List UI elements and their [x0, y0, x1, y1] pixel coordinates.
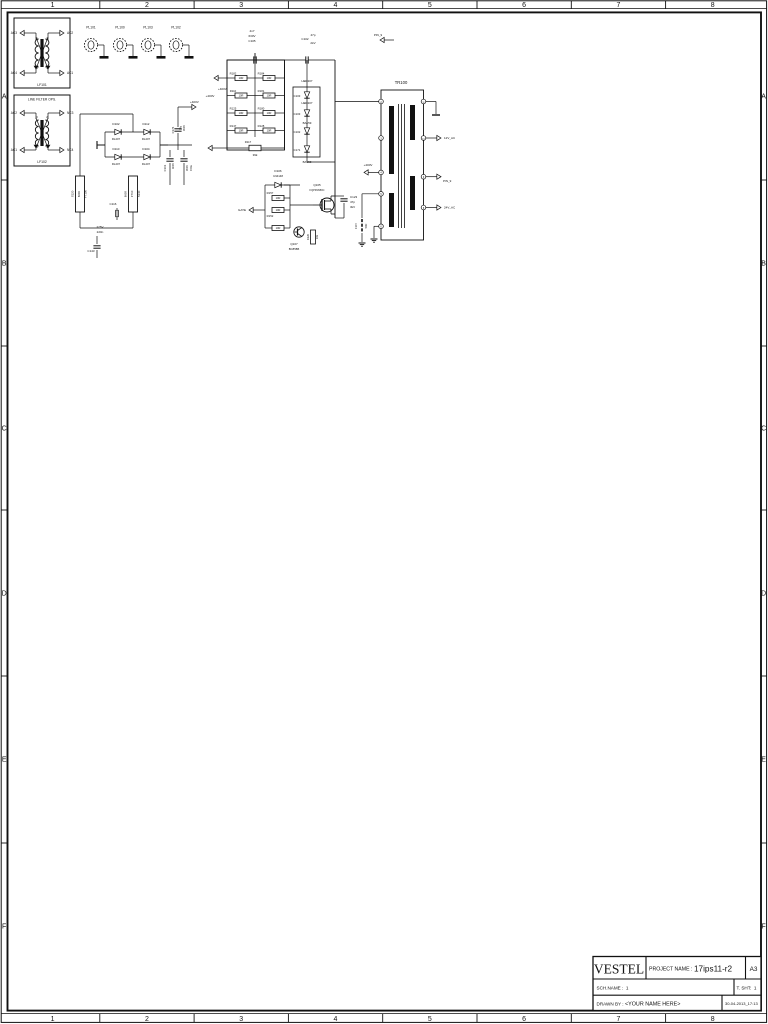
svg-text:10R: 10R — [267, 111, 272, 115]
ruler tick left — [1, 179, 7, 181]
svg-text:AC4: AC4 — [11, 71, 17, 75]
ruler tick top — [99, 1, 101, 9]
svg-text:39k: 39k — [253, 153, 258, 157]
title block frame — [593, 957, 761, 1011]
svg-text:+400V: +400V — [190, 100, 199, 104]
svg-text:AC1: AC1 — [11, 148, 17, 152]
svg-text:E: E — [2, 757, 7, 764]
wire bridge top — [105, 131, 160, 133]
resistor R182 — [235, 76, 247, 81]
svg-text:RL207: RL207 — [142, 162, 151, 166]
svg-text:FT100: FT100 — [84, 190, 88, 199]
transformer TR100 pin 10 — [421, 136, 426, 141]
wire top to caps — [132, 125, 134, 132]
svg-text:LINE FILTER OPS.: LINE FILTER OPS. — [28, 98, 56, 102]
wire snubber verticals — [254, 60, 256, 137]
wire AC vertical trunk — [79, 114, 81, 176]
resistor R156 10R — [272, 226, 284, 231]
transformer TR100 primary winding lower — [389, 193, 394, 227]
resistor R125 — [235, 111, 247, 116]
resistor R184 — [263, 76, 275, 81]
svg-text:450V: 450V — [182, 125, 186, 131]
svg-text:F107: F107 — [354, 222, 358, 228]
svg-text:50R: 50R — [364, 223, 368, 228]
svg-text:10R: 10R — [239, 129, 244, 133]
node PIN_9 top label — [380, 37, 384, 42]
wire filter mid — [97, 144, 105, 146]
capacitor C143 — [96, 236, 98, 244]
svg-text:AC3: AC3 — [11, 31, 17, 35]
svg-text:F: F — [2, 924, 6, 931]
diode D112 RL207 — [144, 129, 150, 134]
svg-text:C123: C123 — [350, 195, 358, 199]
svg-text:BC858B: BC858B — [289, 247, 300, 251]
ruler tick bottom — [476, 1014, 478, 1023]
wire snubber top rail — [285, 59, 306, 61]
resistor R152 10R — [272, 208, 284, 213]
svg-text:LF102: LF102 — [37, 160, 47, 164]
svg-text:5: 5 — [428, 1016, 432, 1023]
node AC2 — [60, 30, 64, 35]
wire cap rail — [160, 144, 192, 146]
svg-text:PL102: PL102 — [171, 26, 181, 30]
ruler tick top — [287, 1, 289, 9]
svg-text:450V: 450V — [185, 165, 189, 171]
svg-text:R128: R128 — [258, 124, 265, 128]
svg-text:4: 4 — [334, 1016, 338, 1023]
svg-text:275V: 275V — [96, 225, 103, 229]
svg-text:10R: 10R — [239, 76, 244, 80]
svg-text:10R: 10R — [276, 226, 281, 230]
wire snubber row — [227, 95, 235, 97]
diode D102 RL207 — [115, 129, 121, 134]
svg-text:SCH.NAME : 1: SCH.NAME : 1 — [597, 986, 629, 991]
svg-text:1: 1 — [51, 1016, 55, 1023]
svg-text:AC2: AC2 — [67, 31, 73, 35]
wire drain trunk — [334, 60, 336, 218]
node AC4 — [20, 70, 24, 75]
svg-text:B: B — [761, 261, 766, 268]
resistor R181 — [263, 93, 275, 98]
svg-text:RL207: RL207 — [112, 162, 121, 166]
svg-text:R182: R182 — [230, 72, 237, 76]
svg-text:R181: R181 — [258, 89, 265, 93]
svg-text:8: 8 — [711, 1016, 715, 1023]
svg-text:Q107: Q107 — [290, 242, 298, 246]
svg-text:C103: C103 — [294, 112, 301, 116]
svg-text:10R: 10R — [276, 196, 281, 200]
ruler tick bottom — [99, 1014, 101, 1023]
ruler tick top — [665, 1, 667, 9]
node +400V snubber — [218, 77, 227, 79]
ruler tick left — [1, 345, 7, 347]
svg-text:TR100: TR100 — [395, 80, 408, 85]
transformer TR100 pin 5 — [379, 192, 384, 197]
svg-text:S140: S140 — [137, 190, 141, 197]
svg-text:R184: R184 — [258, 72, 265, 76]
resistor R180 — [263, 111, 275, 116]
svg-text:8: 8 — [711, 2, 715, 9]
svg-text:E: E — [761, 757, 766, 764]
svg-text:C174: C174 — [171, 126, 175, 133]
svg-text:PL100: PL100 — [115, 26, 125, 30]
fuse F107 50R — [361, 219, 363, 222]
svg-text:6: 6 — [522, 2, 526, 9]
svg-text:400V: 400V — [171, 163, 175, 169]
svg-text:NC3: NC3 — [67, 111, 74, 115]
svg-text:2: 2 — [145, 1016, 149, 1023]
svg-text:D110: D110 — [113, 147, 120, 151]
ruler tick bottom — [193, 1014, 195, 1023]
svg-text:10R: 10R — [239, 111, 244, 115]
svg-text:7: 7 — [616, 1016, 620, 1023]
resistor R157 — [272, 196, 284, 201]
line filter LF101 box — [14, 18, 70, 88]
svg-text:12V_AC: 12V_AC — [444, 136, 456, 140]
svg-text:10R: 10R — [239, 94, 244, 98]
svg-text:+400V: +400V — [206, 94, 215, 98]
svg-text:R147: R147 — [230, 124, 237, 128]
svg-text:R117: R117 — [245, 140, 252, 144]
capacitor C123 47p 3kV — [335, 195, 344, 197]
svg-text:C116: C116 — [110, 202, 117, 206]
svg-text:R125: R125 — [230, 107, 237, 111]
node PIN_9 — [426, 176, 438, 178]
svg-text:GATE: GATE — [238, 208, 246, 212]
svg-text:4: 4 — [334, 2, 338, 9]
svg-text:6: 6 — [522, 1016, 526, 1023]
wire bridge bottom — [105, 156, 160, 158]
svg-text:F: F — [761, 924, 765, 931]
svg-text:3: 3 — [239, 2, 243, 9]
fusible resistor FT101 S140 — [129, 176, 138, 212]
svg-text:R157: R157 — [267, 191, 274, 195]
node 12V_AC pin10 — [426, 137, 438, 139]
svg-text:630V: 630V — [248, 34, 255, 38]
wire bridge out — [159, 132, 161, 157]
svg-text:RL207: RL207 — [142, 137, 151, 141]
diode D104 RL207 — [144, 154, 150, 159]
transformer TR100 pin 4 — [379, 170, 384, 175]
node AC1 input — [20, 147, 24, 152]
svg-text:NC4: NC4 — [67, 148, 74, 152]
snubber box — [227, 60, 285, 150]
HER207 diode stack frame — [293, 87, 320, 157]
svg-text:PL101: PL101 — [86, 26, 96, 30]
svg-text:B: B — [2, 261, 7, 268]
wire source down — [335, 217, 344, 219]
svg-text:R120: R120 — [306, 233, 310, 240]
resistor R117 39k — [249, 145, 261, 151]
svg-text:D106: D106 — [274, 169, 282, 173]
transformer TR100 primary winding upper — [389, 106, 394, 174]
svg-text:FT10: FT10 — [130, 190, 134, 197]
wire snubber row — [227, 112, 235, 114]
wire pin5 to fuse — [362, 193, 379, 195]
svg-text:10R: 10R — [267, 76, 272, 80]
node GATE — [249, 207, 253, 212]
ruler tick left — [1, 509, 7, 511]
svg-text:S120: S120 — [71, 190, 75, 197]
fusible resistor FT100 S120 — [76, 176, 85, 212]
ruler tick right — [761, 179, 767, 181]
svg-text:FQPF9N50C: FQPF9N50C — [310, 188, 325, 192]
svg-text:<YOUR NAME HERE>: <YOUR NAME HERE> — [625, 1002, 680, 1008]
svg-text:10R: 10R — [267, 94, 272, 98]
ruler tick right — [761, 675, 767, 677]
node +400V out — [178, 106, 192, 108]
svg-text:D: D — [2, 591, 7, 598]
node NC4 — [60, 147, 64, 152]
svg-text:R110: R110 — [230, 89, 237, 93]
line filter LF102 box — [14, 95, 70, 166]
node 24V_AC pin8 — [426, 207, 438, 209]
wire snubber row — [227, 77, 235, 79]
transformer TR100 pin 2 — [379, 99, 384, 104]
diode D111 BA159 — [304, 128, 309, 134]
svg-text:150u: 150u — [189, 165, 193, 171]
capacitor C116 — [116, 208, 118, 211]
svg-text:C: C — [761, 426, 766, 433]
svg-text:PL103: PL103 — [143, 26, 153, 30]
svg-text:600R: 600R — [77, 191, 81, 197]
resistor R128 — [263, 128, 275, 133]
transformer TR100 pin 11 — [421, 99, 426, 104]
ruler tick top — [570, 1, 572, 9]
transformer TR100 core — [398, 104, 400, 228]
resistor R147 — [235, 128, 247, 133]
svg-text:PIN_9: PIN_9 — [443, 179, 452, 183]
svg-text:C103: C103 — [294, 94, 301, 98]
resistor R120 10k — [311, 230, 316, 244]
svg-text:C102: C102 — [301, 37, 309, 41]
transformer TR100 pin 6 — [379, 224, 384, 229]
svg-text:C: C — [2, 426, 7, 433]
svg-text:47p: 47p — [310, 33, 315, 37]
svg-text:DRAWN BY :: DRAWN BY : — [597, 1001, 624, 1006]
svg-text:C143: C143 — [87, 249, 95, 253]
top ruler line — [1, 8, 766, 10]
svg-text:10k: 10k — [315, 234, 319, 239]
node AC3 — [20, 30, 24, 35]
svg-text:PIN_9: PIN_9 — [374, 33, 383, 37]
svg-text:220n: 220n — [97, 230, 104, 234]
svg-text:2: 2 — [145, 2, 149, 9]
node NC3 — [60, 110, 64, 115]
svg-text:+400V: +400V — [218, 87, 227, 91]
wire pin2 to drain — [335, 101, 379, 103]
svg-text:3kV: 3kV — [350, 205, 355, 209]
svg-text:C102: C102 — [294, 130, 301, 134]
transformer TR100 pin 8 — [421, 205, 426, 210]
svg-text:C105: C105 — [248, 39, 256, 43]
diode D109 BA159 — [304, 146, 309, 152]
svg-text:C171: C171 — [294, 148, 301, 152]
svg-text:C101: C101 — [163, 164, 167, 171]
wire snubber row — [227, 130, 235, 132]
svg-text:A: A — [761, 94, 766, 101]
wire gate cluster — [264, 185, 266, 228]
svg-text:3: 3 — [239, 1016, 243, 1023]
diode D110 RL207 — [115, 154, 121, 159]
transformer TR100 secondary winding upper — [410, 105, 415, 140]
svg-text:4n7: 4n7 — [249, 29, 254, 33]
ruler tick left — [1, 842, 7, 844]
transformer TR100 secondary winding lower — [410, 176, 415, 210]
transformer TR100 pin 3 — [379, 136, 384, 141]
svg-text:R152: R152 — [267, 214, 274, 218]
wire bottom rail — [79, 212, 81, 228]
ruler tick bottom — [287, 1014, 289, 1023]
svg-text:7: 7 — [616, 2, 620, 9]
transformer LF102 — [40, 120, 43, 146]
svg-text:A3: A3 — [750, 966, 758, 973]
svg-text:1N4148: 1N4148 — [273, 174, 283, 178]
svg-text:17ips11-r2: 17ips11-r2 — [694, 965, 733, 974]
svg-text:D: D — [761, 591, 766, 598]
bottom ruler line — [1, 1013, 766, 1015]
svg-text:T. SHT: 1: T. SHT: 1 — [737, 986, 757, 991]
ruler tick bottom — [665, 1014, 667, 1023]
svg-text:D104: D104 — [142, 147, 150, 151]
wire pin11 return — [426, 101, 436, 103]
ruler tick right — [761, 842, 767, 844]
transformer TR100 pin 9 — [421, 174, 426, 179]
svg-text:600R: 600R — [124, 191, 128, 197]
wire bridge input stub — [97, 144, 105, 146]
ruler tick right — [761, 345, 767, 347]
wire HER stack — [306, 60, 308, 92]
resistor R110 — [235, 93, 247, 98]
svg-text:RL207: RL207 — [112, 137, 121, 141]
capacitor C175 450V 150u — [183, 150, 185, 157]
svg-text:AC1: AC1 — [67, 71, 73, 75]
svg-text:47p: 47p — [350, 200, 355, 204]
ruler tick bottom — [570, 1014, 572, 1023]
ruler tick top — [193, 1, 195, 9]
svg-text:1: 1 — [51, 2, 55, 9]
svg-text:22u: 22u — [179, 125, 183, 130]
ruler tick top — [476, 1, 478, 9]
transistor Q107 BC858B — [294, 227, 304, 237]
svg-text:24V_AC: 24V_AC — [444, 206, 456, 210]
svg-text:LF101: LF101 — [37, 83, 47, 87]
svg-text:PROJECT NAME :: PROJECT NAME : — [649, 967, 692, 973]
svg-text:10R: 10R — [267, 129, 272, 133]
ruler tick bottom — [382, 1014, 384, 1023]
ruler tick right — [761, 509, 767, 511]
svg-text:10R: 10R — [276, 208, 281, 212]
capacitor C101 400V 68u — [169, 150, 171, 157]
svg-text:AC2: AC2 — [11, 111, 17, 115]
svg-text:5: 5 — [428, 2, 432, 9]
svg-text:D102: D102 — [112, 122, 120, 126]
svg-text:D112: D112 — [143, 122, 150, 126]
svg-text:R180: R180 — [258, 107, 265, 111]
svg-text:A: A — [2, 94, 7, 101]
node AC2 input — [20, 110, 24, 115]
svg-text:Q105: Q105 — [313, 183, 321, 187]
ruler tick left — [1, 675, 7, 677]
node +400V to pin4 — [368, 171, 379, 173]
ruler tick top — [382, 1, 384, 9]
svg-text:2kV: 2kV — [310, 41, 315, 45]
capacitor C174 22u 450V — [177, 107, 179, 127]
ground primary — [374, 225, 379, 227]
svg-text:30-04-2013_17:13: 30-04-2013_17:13 — [725, 1001, 758, 1006]
svg-text:VESTEL: VESTEL — [594, 962, 644, 977]
svg-text:+400V: +400V — [364, 163, 373, 167]
transformer LF101 — [40, 39, 43, 67]
node +400V lower — [212, 147, 227, 149]
node AC1 — [60, 70, 64, 75]
